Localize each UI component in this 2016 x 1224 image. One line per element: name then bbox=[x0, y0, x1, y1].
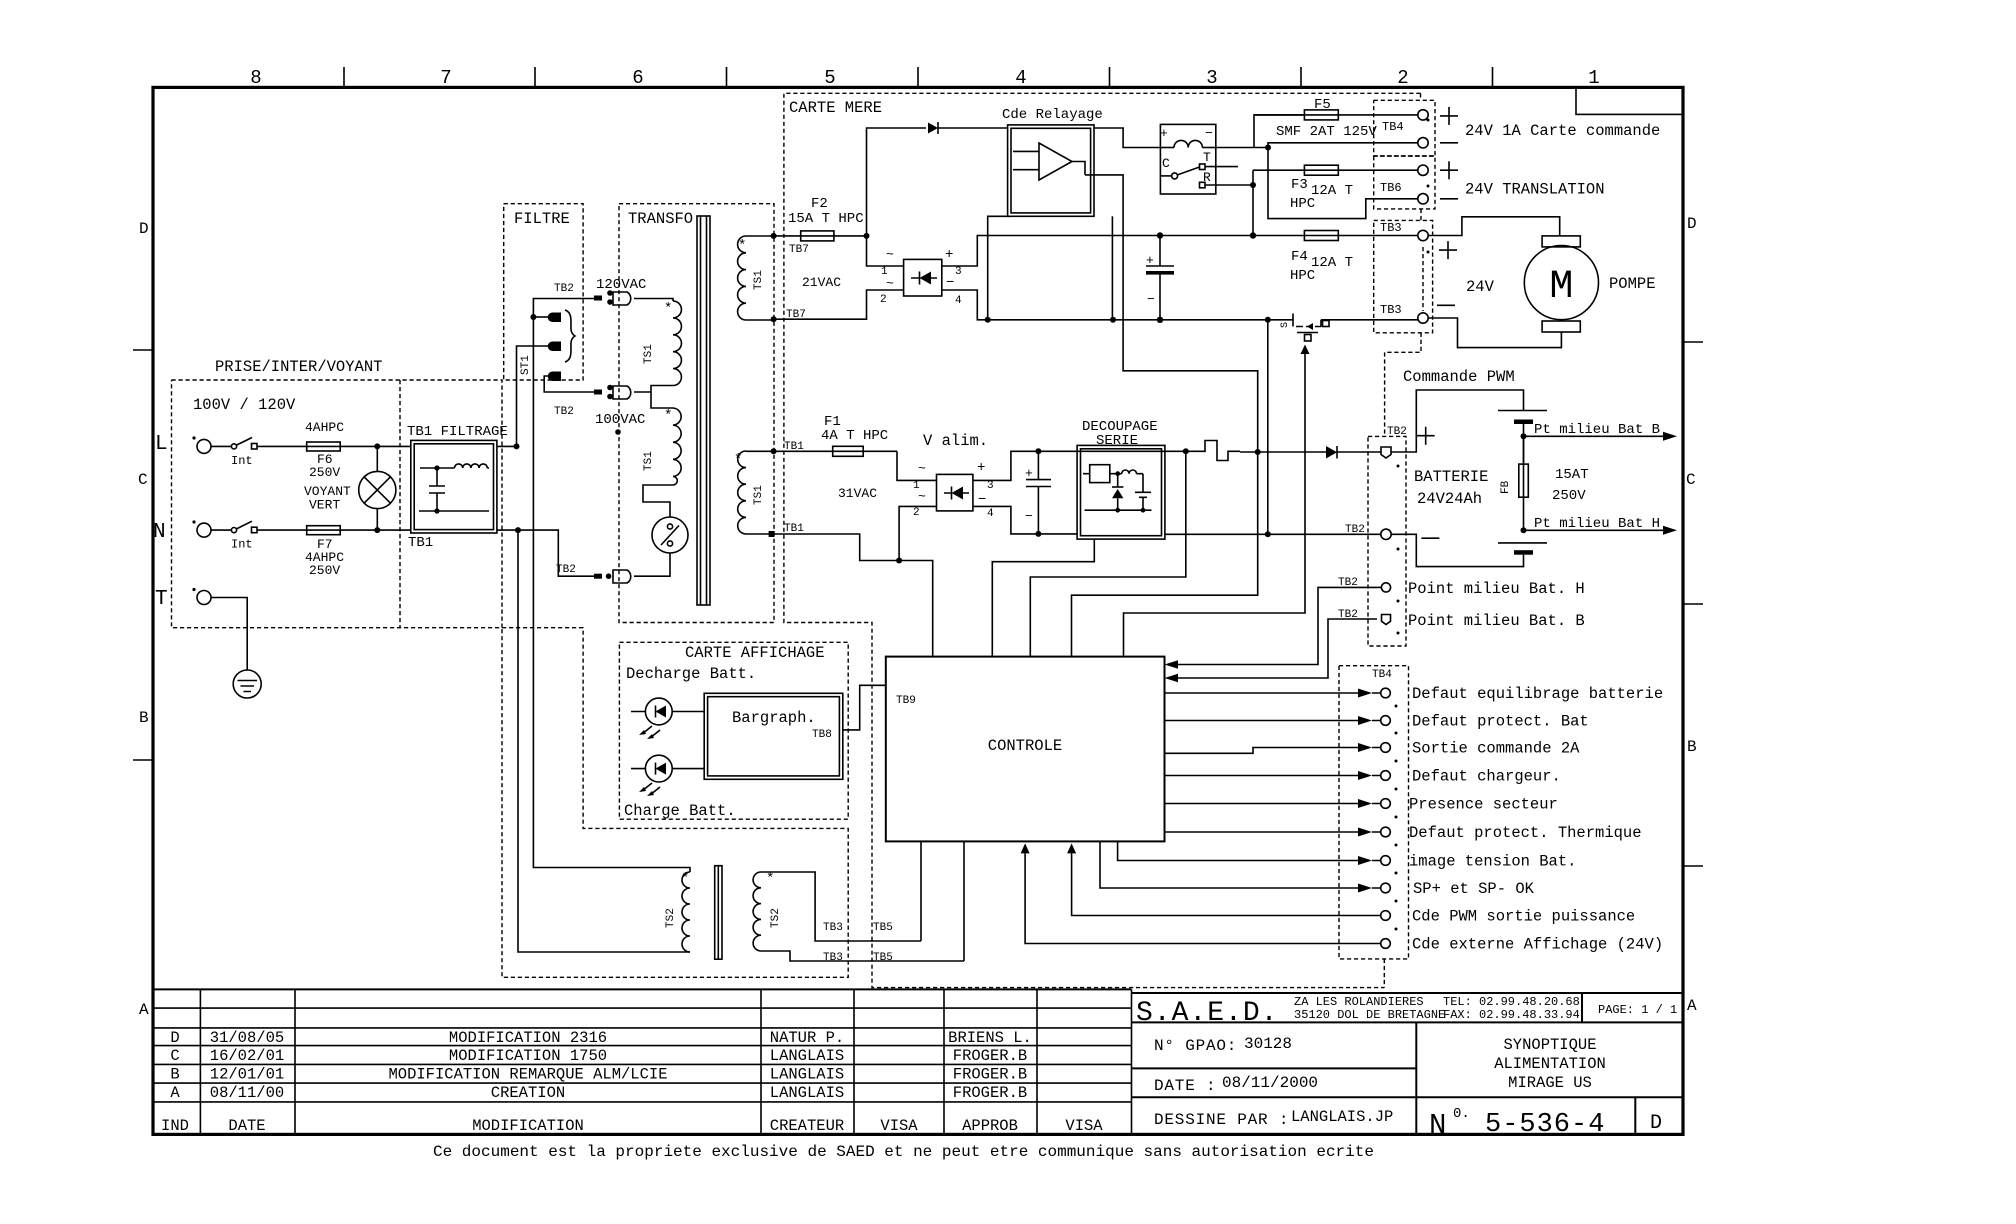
svg-text:CARTE AFFICHAGE: CARTE AFFICHAGE bbox=[685, 644, 825, 662]
wire decoupage out to pulse bbox=[1165, 450, 1186, 452]
TB6 polarity bbox=[1440, 161, 1458, 199]
wire F2 node down to bridge pin1 bbox=[867, 236, 904, 266]
svg-text:F5: F5 bbox=[1314, 97, 1331, 113]
svg-text:T: T bbox=[1203, 150, 1211, 165]
svg-text:M: M bbox=[1549, 265, 1573, 310]
svg-text:4A T HPC: 4A T HPC bbox=[821, 428, 888, 444]
signal wire SP+ et SP- OK bbox=[1100, 841, 1535, 898]
filter capacitor C1 bbox=[1146, 232, 1174, 323]
signal wire presence secteur bbox=[1165, 796, 1558, 814]
op-amp U1 bbox=[1013, 143, 1085, 180]
svg-text:12A T: 12A T bbox=[1311, 183, 1353, 199]
transformer core TS2 bbox=[715, 866, 722, 960]
frame column numbers bbox=[250, 67, 1599, 89]
TS2 secondary winding bbox=[753, 871, 782, 951]
svg-text:35120 DOL DE BRETAGNE: 35120 DOL DE BRETAGNE bbox=[1294, 1008, 1445, 1022]
svg-text:TB1: TB1 bbox=[784, 523, 804, 535]
dashed link TB3 to TB2 bbox=[1385, 333, 1421, 437]
node TB1 top bbox=[771, 448, 777, 454]
signal wire defaut equilibrage bbox=[1165, 685, 1664, 703]
wire pm B to controle bbox=[1165, 619, 1378, 682]
battery minus return wire bbox=[1165, 317, 1381, 538]
svg-text:250V: 250V bbox=[309, 465, 340, 480]
TB4 terminal circles bbox=[1418, 110, 1428, 148]
svg-text:TB2: TB2 bbox=[554, 283, 574, 295]
svg-text:7: 7 bbox=[440, 67, 451, 89]
svg-text:VERT: VERT bbox=[309, 498, 340, 513]
node coil minus bbox=[1265, 145, 1271, 151]
svg-text:BATTERIE: BATTERIE bbox=[1414, 468, 1488, 486]
revision row D bbox=[170, 1029, 1032, 1047]
node TB1 bottom bbox=[769, 531, 775, 537]
svg-text:N: N bbox=[153, 521, 166, 544]
svg-text:C: C bbox=[138, 471, 148, 489]
svg-text:*: * bbox=[766, 871, 774, 887]
svg-text:FROGER.B: FROGER.B bbox=[953, 1084, 1027, 1102]
node lamp bottom bbox=[374, 527, 380, 533]
svg-text:TB9: TB9 bbox=[896, 695, 916, 707]
svg-text:100V / 120V: 100V / 120V bbox=[193, 396, 296, 414]
svg-text:TB5: TB5 bbox=[873, 952, 893, 964]
svg-text:C: C bbox=[1686, 471, 1696, 489]
TS2 primary winding bbox=[665, 871, 690, 952]
svg-text:FB: FB bbox=[1500, 480, 1512, 494]
wire 120VAC to TS1 upper primary bbox=[634, 299, 673, 302]
fuse F6 bbox=[305, 420, 344, 480]
CONTROLE block bbox=[886, 657, 1165, 842]
relay R contact wire to F3 node bbox=[1205, 182, 1256, 188]
svg-text:DESSINE PAR :: DESSINE PAR : bbox=[1154, 1111, 1289, 1129]
fuse F1 bbox=[774, 414, 897, 456]
svg-text:4: 4 bbox=[987, 508, 994, 520]
thermal protector bbox=[652, 517, 688, 553]
node TB7 top bbox=[771, 233, 777, 239]
svg-text:TB5: TB5 bbox=[873, 922, 893, 934]
svg-text:08/11/00: 08/11/00 bbox=[210, 1084, 284, 1102]
svg-text:image tension Bat.: image tension Bat. bbox=[1409, 853, 1576, 871]
svg-text:D: D bbox=[1687, 215, 1697, 233]
node bridge2 pin2 branch bbox=[896, 558, 902, 564]
TS1 primary upper winding bbox=[643, 301, 681, 385]
svg-text:FROGER.B: FROGER.B bbox=[953, 1047, 1027, 1065]
frame row letters bbox=[138, 215, 1697, 1019]
labels BATTERIE bbox=[1414, 468, 1488, 508]
decoupage internal rail bbox=[1077, 450, 1165, 452]
svg-text:2: 2 bbox=[1397, 67, 1408, 89]
point milieu H terminal bbox=[1381, 583, 1390, 592]
Bargraph block bbox=[704, 693, 843, 779]
drawing frame border bbox=[153, 87, 1683, 1134]
revision row A bbox=[170, 1084, 1027, 1102]
frame column ticks top bbox=[344, 67, 1493, 87]
svg-text:PRISE/INTER/VOYANT: PRISE/INTER/VOYANT bbox=[215, 358, 382, 376]
svg-text:100VAC: 100VAC bbox=[595, 412, 645, 428]
svg-text:T: T bbox=[155, 588, 168, 611]
svg-text:PAGE: 1 / 1: PAGE: 1 / 1 bbox=[1598, 1003, 1677, 1017]
svg-text:16/02/01: 16/02/01 bbox=[210, 1047, 284, 1065]
TS2 secondary wires to TB3/TB5 bbox=[761, 872, 964, 964]
svg-text:F3: F3 bbox=[1291, 177, 1308, 193]
svg-text:~: ~ bbox=[886, 276, 894, 291]
svg-text:S.A.E.D.: S.A.E.D. bbox=[1136, 998, 1278, 1029]
svg-text:250V: 250V bbox=[309, 563, 340, 578]
svg-text:D: D bbox=[170, 1029, 179, 1047]
svg-text:Pt milieu Bat H: Pt milieu Bat H bbox=[1534, 516, 1660, 532]
DESSINE PAR row bbox=[1154, 1108, 1393, 1129]
TB4 signals dashed box bbox=[1339, 666, 1409, 988]
connector ST1 pins bbox=[520, 310, 575, 381]
svg-text:4: 4 bbox=[1015, 67, 1026, 89]
wire F2 node up to diode rail bbox=[867, 128, 927, 236]
svg-text:FROGER.B: FROGER.B bbox=[953, 1066, 1027, 1084]
svg-text:TS1: TS1 bbox=[753, 485, 765, 505]
revision row C bbox=[170, 1047, 1027, 1065]
wire top rail to relay coil bbox=[1094, 128, 1160, 148]
node pt milieu bat B bbox=[1521, 433, 1527, 439]
title block grid bbox=[1132, 993, 1684, 1134]
svg-text:LANGLAIS: LANGLAIS bbox=[770, 1066, 844, 1084]
N GPAO row bbox=[1154, 1035, 1292, 1055]
svg-text:+: + bbox=[1025, 466, 1033, 481]
revision header row bbox=[161, 1117, 1103, 1135]
100VAC faston terminal bbox=[594, 385, 645, 435]
svg-text:TB4: TB4 bbox=[1382, 120, 1404, 134]
svg-text:21VAC: 21VAC bbox=[802, 275, 841, 290]
svg-text:2: 2 bbox=[913, 507, 920, 519]
point milieu B terminal bbox=[1382, 615, 1391, 625]
LED decharge bbox=[631, 698, 704, 739]
svg-text:TEL: 02.99.48.20.68: TEL: 02.99.48.20.68 bbox=[1443, 995, 1580, 1009]
wire filtrage top to ST1 middle bbox=[517, 346, 550, 446]
DECOUPAGE SERIE block bbox=[1077, 419, 1165, 539]
CARTE AFFICHAGE dashed box bbox=[619, 642, 848, 820]
relay T contact stub bbox=[1205, 166, 1238, 168]
svg-text:TB7: TB7 bbox=[789, 244, 809, 256]
arrow Pt milieu Bat B bbox=[1524, 422, 1678, 441]
svg-text:MODIFICATION 2316: MODIFICATION 2316 bbox=[449, 1029, 607, 1047]
wire L to switch bbox=[211, 445, 231, 447]
junction ST1 top / 120VAC net bbox=[530, 314, 536, 320]
svg-text:3: 3 bbox=[1206, 67, 1217, 89]
TB1 FILTRAGE block bbox=[407, 424, 508, 551]
op-amp ground wire bbox=[985, 216, 1010, 322]
svg-text:−: − bbox=[1205, 126, 1213, 141]
wire TB1 bottom to bridge2 pin2 bbox=[775, 506, 937, 560]
svg-text:+: + bbox=[1146, 253, 1154, 268]
wire filtrage bottom node down to TS2 bbox=[518, 530, 690, 952]
svg-text:ZA LES ROLANDIERES: ZA LES ROLANDIERES bbox=[1294, 995, 1424, 1009]
svg-text:L: L bbox=[155, 433, 168, 456]
terminal N bbox=[153, 520, 211, 544]
svg-text:Presence secteur: Presence secteur bbox=[1409, 796, 1558, 814]
svg-text:3: 3 bbox=[987, 480, 994, 492]
address / phone bbox=[1294, 995, 1580, 1022]
wire image tension from +24 node down bbox=[1030, 451, 1186, 656]
diode D2 bbox=[1326, 446, 1381, 459]
svg-text:+: + bbox=[1160, 126, 1168, 141]
filter internals: inductor and capacitor bbox=[419, 464, 489, 514]
svg-text:TS1: TS1 bbox=[643, 451, 655, 471]
svg-text:TB1: TB1 bbox=[408, 535, 433, 551]
signal wire sortie commande 2A bbox=[1165, 740, 1581, 758]
terminal T bbox=[155, 588, 211, 611]
ground earth symbol bbox=[233, 670, 261, 698]
TS2 dashed enclosure bbox=[502, 628, 848, 978]
relay coil minus wire to F5 bbox=[1216, 115, 1305, 148]
fuse F2 bbox=[774, 196, 867, 256]
svg-text:120VAC: 120VAC bbox=[596, 277, 646, 293]
svg-text:250V: 250V bbox=[1552, 488, 1586, 504]
reservoir capacitor C2 bbox=[1025, 448, 1051, 537]
svg-text:24V24Ah: 24V24Ah bbox=[1417, 490, 1482, 508]
svg-text:C: C bbox=[170, 1047, 179, 1065]
dashed link TB6 to TB3 bbox=[1420, 209, 1422, 221]
svg-text:Defaut chargeur.: Defaut chargeur. bbox=[1412, 768, 1561, 786]
svg-text:DATE :: DATE : bbox=[1154, 1077, 1216, 1095]
wire filtrage bottom to TB2 capsule bbox=[518, 530, 594, 576]
fuse FB bbox=[1500, 436, 1589, 530]
wire bridge pin4 to -rail bbox=[942, 290, 1288, 320]
svg-text:*: * bbox=[681, 871, 689, 887]
wire bridge2 pin4 to -24 rail bbox=[973, 506, 1077, 534]
svg-text:TB3: TB3 bbox=[823, 922, 843, 934]
wire decoupage gnd to controle bbox=[992, 539, 1094, 657]
svg-text:MODIFICATION 1750: MODIFICATION 1750 bbox=[449, 1047, 607, 1065]
svg-text:12A T: 12A T bbox=[1311, 255, 1353, 271]
svg-text:APPROB: APPROB bbox=[962, 1117, 1018, 1135]
svg-text:Charge Batt.: Charge Batt. bbox=[624, 802, 736, 820]
TB2 terminal box bbox=[1368, 426, 1407, 646]
TB2 minus terminal bbox=[1381, 529, 1391, 539]
svg-text:TB3: TB3 bbox=[823, 952, 843, 964]
svg-text:LANGLAIS.JP: LANGLAIS.JP bbox=[1291, 1108, 1393, 1126]
signal wire defaut protect bat bbox=[1165, 713, 1589, 731]
svg-text:Ce document est la propriete e: Ce document est la propriete exclusive d… bbox=[433, 1143, 1374, 1161]
svg-text:DATE: DATE bbox=[228, 1117, 265, 1135]
svg-text:Defaut protect. Thermique: Defaut protect. Thermique bbox=[1409, 824, 1642, 842]
svg-text:2: 2 bbox=[880, 294, 887, 306]
svg-text:VISA: VISA bbox=[880, 1117, 918, 1135]
wire F3 node down to +rail bbox=[1250, 185, 1256, 239]
svg-text:CONTROLE: CONTROLE bbox=[988, 737, 1062, 755]
svg-text:Point milieu Bat. B: Point milieu Bat. B bbox=[1408, 612, 1585, 630]
TB3 terminal circles bbox=[1418, 230, 1428, 323]
svg-text:TB1: TB1 bbox=[784, 441, 804, 453]
svg-text:TS1: TS1 bbox=[643, 344, 655, 364]
svg-text:TS2: TS2 bbox=[665, 908, 677, 928]
mosfet gate wire from CONTROLE bbox=[1124, 357, 1306, 657]
svg-text:TB6: TB6 bbox=[1380, 181, 1402, 195]
Cde Relayage block bbox=[1002, 107, 1103, 216]
svg-text:LANGLAIS: LANGLAIS bbox=[770, 1047, 844, 1065]
pompe motor M1 bbox=[1524, 236, 1655, 332]
svg-text:Cde Relayage: Cde Relayage bbox=[1002, 107, 1103, 123]
decoupage internals bbox=[1083, 465, 1152, 513]
TB3 terminal box bbox=[1374, 220, 1433, 332]
svg-text:15A T HPC: 15A T HPC bbox=[788, 211, 864, 227]
wire T to ground bbox=[211, 598, 247, 671]
svg-text:N° GPAO:: N° GPAO: bbox=[1154, 1037, 1237, 1055]
fuse F4 bbox=[1290, 231, 1418, 285]
svg-text:TB3: TB3 bbox=[1380, 303, 1402, 317]
battery minus sign bbox=[1421, 537, 1439, 539]
wire 120VAC capsule to TS2 top (long vertical) bbox=[533, 299, 690, 873]
wire TB4 minus net bbox=[1268, 143, 1418, 219]
TB4 terminal box bbox=[1374, 100, 1435, 156]
fuse F3 bbox=[1253, 165, 1418, 212]
svg-text:SP+ et SP- OK: SP+ et SP- OK bbox=[1413, 880, 1535, 898]
wire ST1 top pin bbox=[533, 316, 549, 318]
svg-text:31VAC: 31VAC bbox=[838, 486, 877, 501]
svg-text:~: ~ bbox=[918, 461, 926, 476]
svg-text:Point milieu Bat. H: Point milieu Bat. H bbox=[1408, 580, 1585, 598]
PRISE/INTER/VOYANT dashed box bbox=[172, 358, 503, 628]
wire TB3 minus to motor bbox=[1428, 318, 1561, 348]
svg-text:Bargraph.: Bargraph. bbox=[732, 709, 816, 727]
mosfet Q1 on -rail bbox=[1280, 314, 1418, 358]
arrow Pt milieu Bat H bbox=[1524, 516, 1678, 535]
svg-text:FILTRE: FILTRE bbox=[514, 210, 570, 228]
TB6 terminal box bbox=[1374, 156, 1435, 209]
svg-text:A: A bbox=[170, 1084, 180, 1102]
svg-text:−: − bbox=[1147, 292, 1155, 307]
TB3 polarity bbox=[1437, 241, 1457, 305]
node F2 output bbox=[864, 233, 870, 239]
svg-text:1: 1 bbox=[1588, 67, 1599, 89]
title SYNOPTIQUE ALIMENTATION MIRAGE US bbox=[1494, 1036, 1606, 1092]
TS1 secondary 21VAC winding bbox=[738, 236, 765, 320]
svg-text:+: + bbox=[945, 247, 953, 263]
120VAC faston terminal bbox=[594, 277, 646, 305]
svg-text:TB1 FILTRAGE: TB1 FILTRAGE bbox=[407, 424, 508, 440]
svg-text:TB4: TB4 bbox=[1372, 669, 1392, 681]
signal wire image tension bat bbox=[1118, 841, 1577, 870]
wire TB3 plus to motor bbox=[1428, 217, 1560, 236]
battery BT1 plus plate bbox=[1498, 411, 1547, 437]
svg-text:*: * bbox=[664, 301, 672, 317]
svg-text:08/11/2000: 08/11/2000 bbox=[1222, 1074, 1318, 1092]
wire pm H to controle bbox=[1165, 587, 1382, 668]
svg-text:SYNOPTIQUE: SYNOPTIQUE bbox=[1503, 1036, 1596, 1054]
svg-text:+: + bbox=[977, 460, 985, 476]
revision row B bbox=[170, 1066, 1027, 1084]
op-amp supply wire to -rail bbox=[1110, 216, 1116, 322]
bridge rectifier PD2 bbox=[913, 460, 994, 520]
svg-text:CARTE MERE: CARTE MERE bbox=[789, 99, 882, 117]
TRANSFO dashed box bbox=[619, 204, 774, 623]
svg-text:IND: IND bbox=[161, 1117, 189, 1135]
wire op-amp output to relay C and battery line bbox=[1072, 175, 1258, 657]
node TB7 bottom bbox=[771, 316, 777, 322]
signal circles column bbox=[1381, 688, 1391, 948]
svg-text:Cde externe Affichage (24V): Cde externe Affichage (24V) bbox=[1412, 936, 1663, 954]
svg-text:5: 5 bbox=[824, 67, 835, 89]
svg-text:F2: F2 bbox=[811, 196, 828, 212]
diode D1 bbox=[928, 122, 1008, 134]
controle bottom arrow inputs bbox=[1021, 843, 1381, 943]
svg-text:*: * bbox=[664, 408, 672, 424]
100V tap wiring bbox=[634, 386, 673, 409]
svg-text:Decharge Batt.: Decharge Batt. bbox=[626, 665, 756, 683]
TS1 secondary 31VAC winding bbox=[734, 451, 765, 534]
svg-text:31/08/05: 31/08/05 bbox=[210, 1029, 284, 1047]
TB2 plus terminal bbox=[1381, 447, 1391, 458]
svg-text:TB2: TB2 bbox=[1387, 426, 1407, 438]
filtrage output top node bbox=[497, 443, 520, 449]
switch Int (L) bbox=[231, 438, 257, 469]
svg-text:B: B bbox=[139, 709, 149, 727]
svg-text:Sortie commande 2A: Sortie commande 2A bbox=[1412, 740, 1580, 758]
svg-text:Int: Int bbox=[231, 538, 253, 552]
svg-text:TB7: TB7 bbox=[786, 309, 806, 321]
commande pwm wire loop bbox=[1391, 390, 1524, 452]
svg-text:Pt milieu Bat B: Pt milieu Bat B bbox=[1534, 422, 1660, 438]
wires 31VAC winding to TB1 bbox=[746, 451, 774, 534]
fuse F7 bbox=[305, 526, 344, 578]
svg-text:HPC: HPC bbox=[1290, 268, 1315, 284]
svg-text:CREATEUR: CREATEUR bbox=[770, 1117, 844, 1135]
svg-text:S: S bbox=[1280, 322, 1291, 328]
node battery line bbox=[1255, 449, 1261, 455]
svg-text:B: B bbox=[170, 1066, 179, 1084]
svg-text:HPC: HPC bbox=[1290, 196, 1315, 212]
wire switch to fuse F6 bbox=[257, 445, 307, 447]
switch Int (N) bbox=[211, 521, 257, 551]
svg-text:BRIENS L.: BRIENS L. bbox=[948, 1029, 1032, 1047]
terminal L bbox=[155, 433, 211, 456]
voyant vert lamp bbox=[304, 446, 396, 530]
svg-text:ST1: ST1 bbox=[520, 355, 532, 375]
svg-text:*: * bbox=[738, 238, 746, 254]
TB2 bottom faston terminal bbox=[594, 570, 631, 583]
bridge rectifier PD1 bbox=[880, 247, 962, 307]
svg-text:NATUR P.: NATUR P. bbox=[770, 1029, 844, 1047]
revision table grid bbox=[153, 989, 1132, 1134]
TB2 labels left bbox=[1338, 524, 1365, 621]
controle bottom wires to TS2 bbox=[921, 841, 964, 961]
svg-text:0.: 0. bbox=[1453, 1106, 1470, 1122]
TB6 terminal circles bbox=[1418, 165, 1428, 204]
svg-text:SMF 2AT 125V: SMF 2AT 125V bbox=[1276, 124, 1377, 140]
wire ST1 bottom pin to 100VAC capsule bbox=[544, 376, 594, 392]
svg-text:F4: F4 bbox=[1291, 249, 1308, 265]
drawing number cell bbox=[1429, 1106, 1605, 1142]
wire F1 to bridge2 pin1 bbox=[897, 451, 937, 480]
svg-text:FAX: 02.99.48.33.94: FAX: 02.99.48.33.94 bbox=[1443, 1008, 1580, 1022]
svg-text:A: A bbox=[1687, 997, 1697, 1015]
svg-text:LANGLAIS: LANGLAIS bbox=[770, 1084, 844, 1102]
wires 21VAC winding to TB7 bbox=[746, 236, 774, 320]
svg-text:TS2: TS2 bbox=[770, 908, 782, 928]
svg-text:MODIFICATION REMARQUE ALM/LCIE: MODIFICATION REMARQUE ALM/LCIE bbox=[388, 1066, 667, 1084]
svg-text:ALIMENTATION: ALIMENTATION bbox=[1494, 1055, 1606, 1073]
wire to controle top 1 bbox=[899, 561, 933, 657]
battery BT1 lower plates bbox=[1391, 534, 1547, 566]
TB4 polarity bbox=[1440, 107, 1458, 143]
fuse F5 bbox=[1254, 97, 1418, 140]
frame row ticks sides bbox=[133, 342, 1703, 866]
svg-text:TB8: TB8 bbox=[812, 729, 832, 741]
svg-text:TRANSFO: TRANSFO bbox=[628, 210, 693, 228]
wire lower winding to thermal protector bbox=[643, 485, 673, 517]
signal wire defaut chargeur bbox=[1165, 768, 1561, 786]
wire to battery diode bbox=[1240, 451, 1326, 453]
svg-text:4AHPC: 4AHPC bbox=[305, 420, 344, 435]
node lamp top bbox=[374, 443, 380, 449]
svg-text:N: N bbox=[1429, 1109, 1446, 1142]
svg-text:A: A bbox=[139, 1001, 149, 1019]
node pt milieu bat H bbox=[1521, 527, 1527, 533]
